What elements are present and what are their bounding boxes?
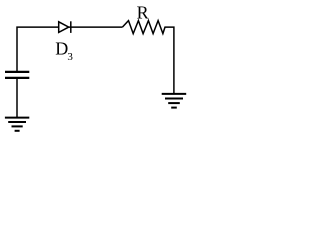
- svg-text:3: 3: [67, 51, 73, 63]
- svg-text:D: D: [55, 39, 68, 59]
- svg-text:R: R: [137, 2, 149, 22]
